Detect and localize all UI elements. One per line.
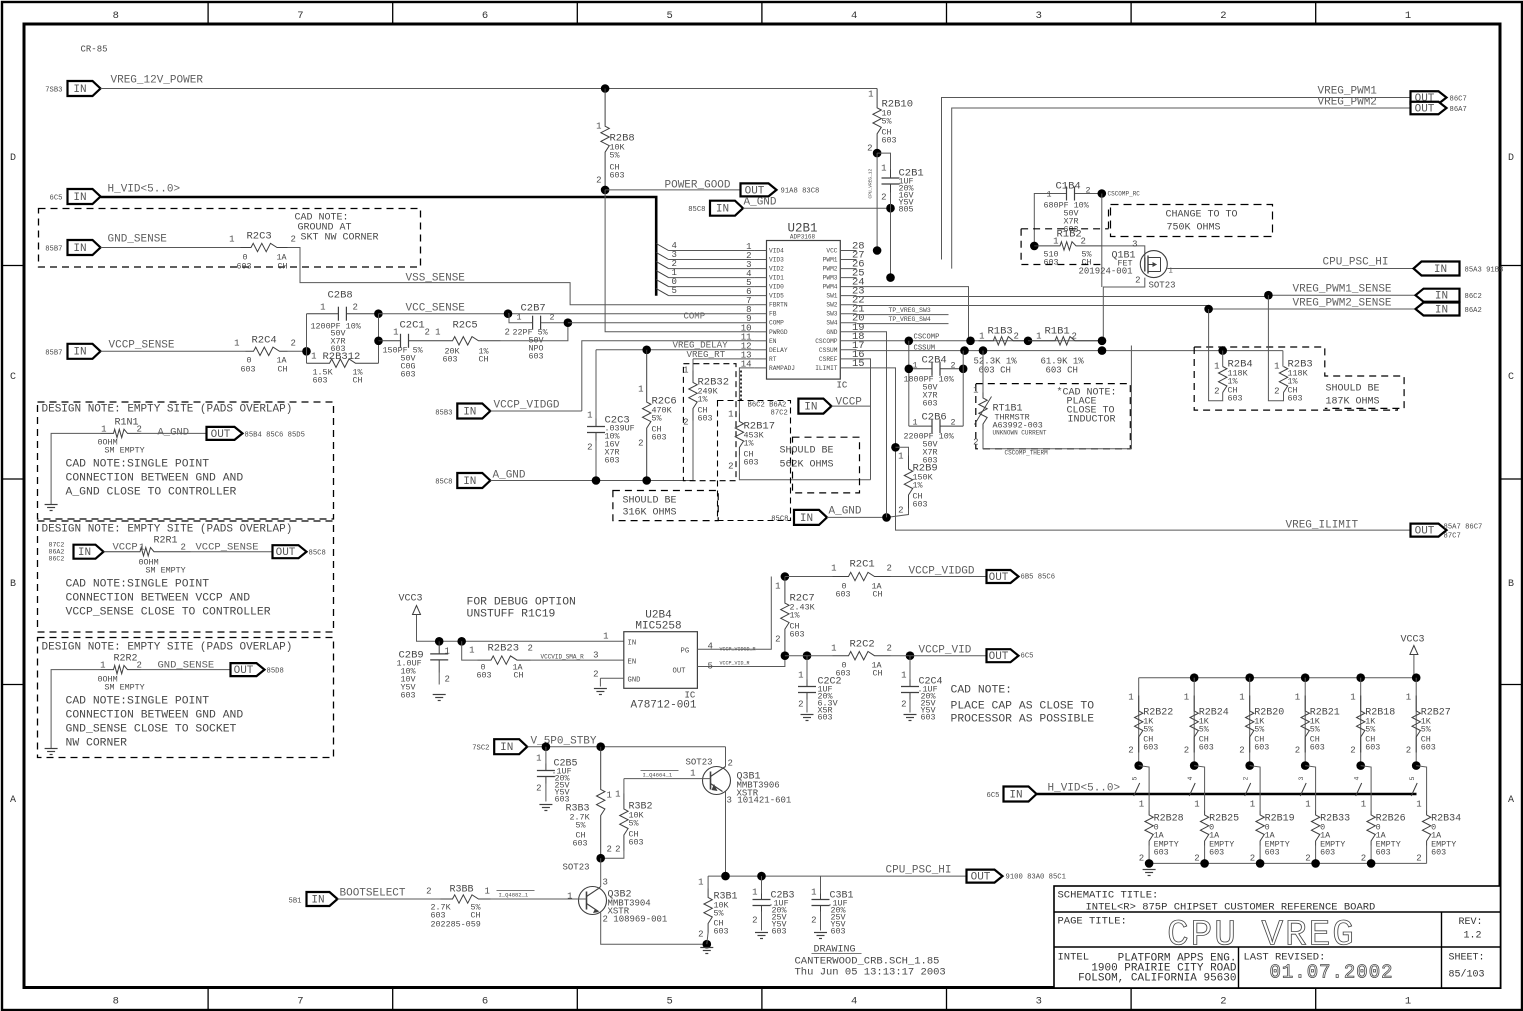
svg-text:2: 2 <box>1416 854 1421 864</box>
port 7SB3 IN <box>45 81 100 96</box>
wire R1B2 to Q1B1 gate <box>1102 246 1145 251</box>
svg-text:4: 4 <box>1354 777 1361 781</box>
svg-text:SHOULD BE: SHOULD BE <box>1326 384 1380 395</box>
dashed box R2B17 <box>718 401 791 521</box>
wire R2B312-R2C5 vertical <box>378 314 380 364</box>
svg-text:1: 1 <box>1036 332 1041 342</box>
svg-text:603: 603 <box>1254 743 1269 753</box>
svg-text:2: 2 <box>951 361 956 371</box>
port OUT VREG_PWM1 <box>1411 91 1467 105</box>
svg-text:5: 5 <box>1132 777 1139 781</box>
svg-text:1: 1 <box>615 790 620 800</box>
svg-text:1: 1 <box>912 361 917 371</box>
svg-text:IN: IN <box>1434 264 1447 276</box>
svg-text:1: 1 <box>898 452 903 462</box>
svg-text:CH: CH <box>278 262 288 272</box>
svg-text:INDUCTOR: INDUCTOR <box>1068 415 1116 426</box>
svg-text:1: 1 <box>311 352 316 362</box>
CAD note dashed box thermistor <box>976 384 1131 449</box>
svg-text:SM EMPTY: SM EMPTY <box>105 683 145 693</box>
wire CSSUM row <box>857 345 1223 353</box>
svg-text:603: 603 <box>698 414 713 424</box>
resistor R3B1 <box>698 876 737 944</box>
svg-text:R3BB: R3BB <box>450 885 474 896</box>
node C2B4 junctions <box>905 365 968 374</box>
port OUT CPU_PSC_HI <box>967 870 1066 884</box>
wire POWER_GOOD <box>605 180 740 192</box>
node R2B9 top junction <box>891 443 900 452</box>
svg-text:CAD NOTE:: CAD NOTE: <box>951 685 1013 697</box>
svg-text:603: 603 <box>882 136 897 146</box>
svg-text:R2C4: R2C4 <box>252 335 277 347</box>
wire COMP row <box>568 312 754 323</box>
svg-text:86C7: 86C7 <box>1450 96 1467 104</box>
svg-text:FOLSOM, CALIFORNIA 95630: FOLSOM, CALIFORNIA 95630 <box>1078 973 1236 985</box>
wire VCCP_SENSE <box>101 350 246 352</box>
svg-text:2: 2 <box>1081 237 1086 247</box>
svg-text:7: 7 <box>297 10 303 22</box>
svg-text:805: 805 <box>899 205 914 215</box>
svg-text:RAMPADJ: RAMPADJ <box>769 365 795 372</box>
svg-text:UNSTUFF R1C19: UNSTUFF R1C19 <box>467 609 556 621</box>
svg-text:Thu Jun 05 13:13:17 2003: Thu Jun 05 13:13:17 2003 <box>795 967 946 979</box>
design note box 2 <box>38 521 334 632</box>
wire PWM4 drop <box>857 287 969 341</box>
svg-text:1: 1 <box>1128 693 1133 703</box>
svg-text:R2C5: R2C5 <box>453 320 478 332</box>
svg-text:603: 603 <box>1376 848 1391 858</box>
svg-text:1: 1 <box>567 892 572 902</box>
port 85B7 IN VCCP_SENSE <box>45 340 175 359</box>
resistor R2B312 <box>307 351 379 386</box>
resistor R1B1 <box>1028 326 1102 376</box>
svg-text:6C5: 6C5 <box>987 792 1000 800</box>
svg-text:2: 2 <box>973 438 978 448</box>
svg-text:85B7: 85B7 <box>45 350 62 358</box>
svg-text:POWER_GOOD: POWER_GOOD <box>665 180 731 192</box>
svg-text:3: 3 <box>593 651 598 661</box>
wire A_GND left row <box>491 480 694 482</box>
svg-text:C: C <box>10 372 16 383</box>
resistor R2B20 <box>1239 678 1284 766</box>
svg-text:603: 603 <box>313 376 328 386</box>
svg-text:CH: CH <box>278 365 288 375</box>
svg-text:PWM2: PWM2 <box>823 266 838 273</box>
svg-text:2: 2 <box>291 235 296 245</box>
resistor R3B3 <box>566 747 612 859</box>
svg-text:6: 6 <box>482 996 488 1008</box>
svg-text:2: 2 <box>550 313 555 323</box>
svg-text:5: 5 <box>666 10 672 22</box>
svg-text:1: 1 <box>831 644 836 654</box>
svg-text:3 101421-601: 3 101421-601 <box>727 796 792 806</box>
svg-text:R2C2: R2C2 <box>850 639 875 651</box>
svg-text:PAGE TITLE:: PAGE TITLE: <box>1058 916 1127 928</box>
capacitor C2C1 <box>379 320 431 380</box>
svg-text:R2C3: R2C3 <box>247 231 272 243</box>
svg-text:EN: EN <box>769 338 777 345</box>
svg-text:4: 4 <box>708 642 713 652</box>
svg-text:C2B6: C2B6 <box>922 412 947 424</box>
svg-text:603: 603 <box>237 262 252 272</box>
svg-text:2: 2 <box>445 675 450 685</box>
node A_GND left junctions <box>592 476 651 485</box>
wire VCCP_VID row left <box>785 655 833 657</box>
svg-text:1: 1 <box>1406 693 1411 703</box>
wire R2C3 to VSS_SENSE <box>288 248 755 305</box>
power VCC3 right <box>1401 635 1425 678</box>
svg-text:CHANGE TO TO: CHANGE TO TO <box>1166 210 1238 221</box>
ground C2B3 <box>755 933 768 939</box>
svg-text:603: 603 <box>921 713 936 723</box>
capacitor C2C3 <box>587 350 635 481</box>
svg-text:2: 2 <box>587 443 592 453</box>
svg-text:SW2: SW2 <box>826 302 837 309</box>
svg-text:CSCOMP_RC: CSCOMP_RC <box>1108 191 1141 198</box>
resistor R2C2 <box>831 639 892 679</box>
node CSCOMP mid junction <box>966 337 975 346</box>
svg-text:VID3: VID3 <box>769 257 784 264</box>
wire C2B1 to PWM3 <box>890 208 892 277</box>
svg-text:A: A <box>10 795 16 806</box>
svg-text:4: 4 <box>1187 777 1194 781</box>
wire C2B4 left column <box>908 341 910 426</box>
svg-text:1: 1 <box>1361 800 1366 810</box>
svg-text:3: 3 <box>1036 996 1042 1008</box>
svg-text:603: 603 <box>1288 394 1303 404</box>
svg-text:EN: EN <box>628 659 637 667</box>
resistor R2C5 <box>431 320 510 365</box>
svg-text:1: 1 <box>690 769 695 779</box>
CAD note dashed box (GND at SKT NW corner) <box>39 209 421 268</box>
svg-text:1: 1 <box>868 90 873 100</box>
svg-text:603: 603 <box>1431 848 1446 858</box>
svg-text:VREG_PWM2_SENSE: VREG_PWM2_SENSE <box>1293 298 1392 310</box>
svg-text:B6C2 B6A2: B6C2 B6A2 <box>748 402 787 410</box>
unstuffed component marker <box>740 371 742 402</box>
svg-text:FBRTN: FBRTN <box>769 302 788 309</box>
svg-text:85B4 85C6 85D5: 85B4 85C6 85D5 <box>245 432 305 440</box>
bus taps VID4..VID5 to U2B1 <box>656 241 754 296</box>
svg-text:603: 603 <box>241 365 256 375</box>
svg-text:1: 1 <box>469 646 474 656</box>
resistor R2B17 <box>728 410 870 480</box>
resistor R2B25 <box>1194 766 1239 864</box>
svg-text:ADP3168: ADP3168 <box>790 234 816 241</box>
svg-text:1: 1 <box>1350 693 1355 703</box>
svg-text:CPU VREG: CPU VREG <box>1167 915 1356 956</box>
svg-text:2: 2 <box>901 700 906 710</box>
svg-text:IN: IN <box>716 204 729 216</box>
thermistor RT1B1 <box>973 351 1047 448</box>
wire VREG_12V_POWER <box>101 75 878 89</box>
svg-text:5%: 5% <box>652 414 663 424</box>
svg-text:2: 2 <box>291 339 296 349</box>
node R3B3 bottom junction <box>596 854 605 863</box>
ground VID network <box>1143 870 1156 876</box>
svg-text:INTEL: INTEL <box>1058 952 1090 964</box>
resistor R2B8 <box>596 89 635 190</box>
wire CPU_PSC_HI right <box>1167 257 1413 269</box>
svg-text:CSREF: CSREF <box>819 356 838 363</box>
svg-text:2: 2 <box>615 845 620 855</box>
wire GND_SENSE <box>101 247 241 249</box>
svg-text:C: C <box>1508 372 1514 383</box>
capacitor C2B5 <box>536 747 577 805</box>
wire CSCOMP_THERM <box>983 346 1131 457</box>
resistor R2C4 <box>234 335 296 375</box>
svg-text:1: 1 <box>752 888 757 898</box>
svg-text:CH: CH <box>873 590 883 600</box>
resistor R2B18 <box>1350 678 1395 766</box>
svg-text:DELAY: DELAY <box>769 347 788 354</box>
svg-text:2: 2 <box>1220 10 1226 22</box>
node PWM1_SENSE junction <box>1264 291 1273 300</box>
svg-text:2: 2 <box>811 916 816 926</box>
svg-text:5: 5 <box>666 996 672 1008</box>
svg-text:VREG_ILIMIT: VREG_ILIMIT <box>1286 520 1359 532</box>
wire R2C5 to COMP <box>501 323 568 341</box>
node VID divider junctions <box>1134 761 1420 770</box>
port 5B1 IN BOOTSELECT <box>289 888 406 907</box>
svg-text:PROCESSOR AS POSSIBLE: PROCESSOR AS POSSIBLE <box>951 714 1095 726</box>
svg-text:C2B8: C2B8 <box>328 290 353 302</box>
svg-text:1: 1 <box>603 632 608 642</box>
svg-text:R1N1: R1N1 <box>115 418 139 429</box>
svg-text:2: 2 <box>1184 746 1189 756</box>
svg-text:D: D <box>10 153 16 164</box>
svg-text:6: 6 <box>482 10 488 22</box>
node DELAY junction <box>642 346 651 355</box>
capacitor C2B6 <box>904 412 964 466</box>
svg-text:7SC2: 7SC2 <box>472 745 489 753</box>
wire ground rail <box>1149 862 1427 864</box>
svg-text:87C2: 87C2 <box>49 542 65 549</box>
dashed box R2B4 R2B3 <box>1194 347 1404 410</box>
dashed box R2B32 <box>683 364 736 481</box>
wire VREG_PWM1_SENSE <box>857 284 1416 297</box>
svg-text:1: 1 <box>516 313 521 323</box>
svg-text:VCCP_VID: VCCP_VID <box>919 645 972 657</box>
node R1B2 left junction <box>1030 242 1039 251</box>
svg-text:A_GND: A_GND <box>829 506 862 518</box>
svg-text:CSCOMP: CSCOMP <box>914 334 940 342</box>
svg-text:603: 603 <box>529 352 544 362</box>
wire Q1B1 source drop <box>1103 278 1145 341</box>
note debug option <box>467 597 576 621</box>
svg-text:ILIMIT: ILIMIT <box>815 365 838 372</box>
wire VREG_PWM2_SENSE <box>857 298 1416 310</box>
port OUT GND_SENSE dn3 <box>231 663 284 677</box>
svg-text:5B1: 5B1 <box>289 898 302 906</box>
svg-text:1: 1 <box>901 671 906 681</box>
wire CSCOMP_RC down <box>1101 246 1103 287</box>
svg-text:2: 2 <box>607 845 612 855</box>
svg-text:3: 3 <box>1298 777 1305 781</box>
svg-text:1: 1 <box>798 671 803 681</box>
ground C2C2 <box>801 715 814 721</box>
svg-text:IN: IN <box>1009 789 1022 801</box>
svg-text:2: 2 <box>1014 332 1019 342</box>
wire SW4 testpoint <box>857 316 949 324</box>
resistor R2B34 <box>1416 766 1461 864</box>
resistor R2B21 <box>1295 678 1340 766</box>
power VCC3 left <box>399 594 624 642</box>
svg-text:8: 8 <box>113 10 119 22</box>
svg-text:603: 603 <box>714 927 729 937</box>
svg-text:1: 1 <box>607 791 612 801</box>
svg-text:86C2: 86C2 <box>49 556 65 563</box>
svg-text:2: 2 <box>798 700 803 710</box>
svg-text:VID5: VID5 <box>769 293 784 300</box>
note text dn1 <box>66 459 244 499</box>
resistor R2R2 <box>98 654 231 693</box>
svg-text:603: 603 <box>772 927 787 937</box>
svg-text:R2B23: R2B23 <box>488 643 520 655</box>
svg-text:4: 4 <box>851 996 857 1008</box>
svg-text:R1B2: R1B2 <box>1057 229 1082 241</box>
svg-text:I_Q4664_1: I_Q4664_1 <box>643 772 673 779</box>
resistor R2B24 <box>1184 678 1229 766</box>
node junction R2B8 top <box>601 84 610 93</box>
svg-text:750K OHMS: 750K OHMS <box>1167 223 1221 234</box>
svg-text:B: B <box>10 579 16 590</box>
svg-text:603: 603 <box>605 456 620 466</box>
transistor Q3B1 PNP <box>686 758 792 877</box>
svg-text:VCCP_SENSE CLOSE TO CONTROLLER: VCCP_SENSE CLOSE TO CONTROLLER <box>66 607 271 619</box>
svg-text:OUT: OUT <box>745 185 765 197</box>
svg-text:85C8: 85C8 <box>309 550 326 558</box>
port IN VREG_PWM2_SENSE <box>1416 303 1482 317</box>
svg-text:2: 2 <box>181 543 186 553</box>
wire R2B10 to C2B1 <box>877 153 890 169</box>
svg-text:2: 2 <box>1072 332 1077 342</box>
svg-text:2: 2 <box>881 193 886 203</box>
svg-text:OUT: OUT <box>989 651 1009 663</box>
svg-text:SW1: SW1 <box>826 293 837 300</box>
svg-text:R2C1: R2C1 <box>850 559 875 571</box>
svg-text:1: 1 <box>1194 800 1199 810</box>
svg-text:85A7 86C7: 85A7 86C7 <box>1444 524 1483 532</box>
svg-text:IN: IN <box>73 192 86 204</box>
svg-text:PWM3: PWM3 <box>823 275 838 282</box>
svg-text:GND_SENSE: GND_SENSE <box>108 234 168 246</box>
svg-text:01.07.2002: 01.07.2002 <box>1269 962 1393 984</box>
svg-text:GND: GND <box>628 677 641 685</box>
svg-text:1: 1 <box>973 386 978 396</box>
svg-text:TP_VREG_SW4: TP_VREG_SW4 <box>889 316 931 323</box>
port 6C5 IN H_VID <box>50 189 101 204</box>
svg-text:VCCP_VIDGD: VCCP_VIDGD <box>909 566 975 578</box>
wire R2C4 to node <box>288 350 307 352</box>
svg-text:603: 603 <box>1421 743 1436 753</box>
svg-text:VCCVID_SMA_R: VCCVID_SMA_R <box>541 654 585 661</box>
wire RT row <box>687 349 755 360</box>
node VCCP_VID junctions <box>781 651 915 660</box>
svg-text:2: 2 <box>698 930 703 940</box>
net label B6C2 B6A2 87C2 <box>748 402 788 418</box>
svg-text:603: 603 <box>1265 848 1280 858</box>
node CSCOMP_RC junction <box>1098 189 1141 198</box>
svg-text:2: 2 <box>1274 387 1279 397</box>
svg-text:CSSUM: CSSUM <box>819 347 838 354</box>
title block <box>1054 886 1501 988</box>
svg-text:6C5: 6C5 <box>1021 653 1034 661</box>
resistor R1N1 <box>98 418 207 456</box>
svg-text:H_VID<5..0>: H_VID<5..0> <box>108 184 181 196</box>
svg-text:603: 603 <box>913 500 928 510</box>
svg-text:GND_SENSE CLOSE TO SOCKET: GND_SENSE CLOSE TO SOCKET <box>66 724 237 736</box>
resistor R2B19 <box>1250 766 1295 864</box>
node CSCOMP right junction <box>1098 337 1107 346</box>
svg-text:2: 2 <box>1194 854 1199 864</box>
resistor R2C7 <box>775 577 816 656</box>
svg-text:A_GND: A_GND <box>744 197 777 209</box>
node VCC_SENSE/C2B7 junction <box>504 309 513 318</box>
svg-text:2: 2 <box>593 670 598 680</box>
svg-text:86A7: 86A7 <box>1450 106 1467 114</box>
regulator U2B4 MIC5258 <box>593 610 713 712</box>
resistor R2B10 <box>867 89 913 154</box>
ground Q3B2 emitter <box>700 948 713 954</box>
svg-text:R1B1: R1B1 <box>1045 326 1070 338</box>
port 8SB7 IN GND_SENSE <box>45 234 167 256</box>
wire CSCOMP row <box>857 334 1103 342</box>
svg-text:1: 1 <box>596 122 601 132</box>
svg-text:R2B312: R2B312 <box>323 351 361 363</box>
resistor R2B28 <box>1139 766 1184 864</box>
wire VCCP route <box>832 359 871 480</box>
wire FB row (VCC_SENSE) <box>378 303 754 315</box>
svg-text:CH: CH <box>479 355 489 365</box>
svg-text:4: 4 <box>851 10 857 22</box>
svg-text:603: 603 <box>831 927 846 937</box>
wire ILIMIT route <box>857 368 1411 532</box>
svg-text:2: 2 <box>1243 777 1250 781</box>
resistor R2B26 <box>1361 766 1406 864</box>
svg-text:SKT NW CORNER: SKT NW CORNER <box>301 233 379 244</box>
svg-text:3: 3 <box>1132 240 1137 250</box>
svg-text:1: 1 <box>775 582 780 592</box>
svg-text:316K OHMS: 316K OHMS <box>623 508 677 519</box>
wire R1N1 to gnd <box>51 433 100 504</box>
svg-text:OUT: OUT <box>971 872 991 884</box>
svg-text:85B3: 85B3 <box>435 410 452 418</box>
capacitor C2B3 <box>752 876 794 936</box>
svg-text:7SB3: 7SB3 <box>45 87 62 95</box>
svg-text:CSCOMP_THERM: CSCOMP_THERM <box>1005 450 1049 457</box>
svg-text:IN: IN <box>800 513 813 525</box>
svg-text:85D8: 85D8 <box>267 668 284 676</box>
svg-text:1: 1 <box>435 328 440 338</box>
resistor R2B32 <box>683 359 729 481</box>
svg-text:OUT: OUT <box>673 668 687 676</box>
node A_GND/C2B1 junction <box>886 204 895 213</box>
svg-text:PWM1: PWM1 <box>823 257 838 264</box>
svg-text:COMP: COMP <box>684 312 706 322</box>
port 6C5 IN H_VID bottom <box>987 783 1121 802</box>
svg-text:85/103: 85/103 <box>1449 969 1485 981</box>
svg-text:2: 2 <box>867 144 872 154</box>
svg-text:CPU_PSC_HI: CPU_PSC_HI <box>886 865 952 877</box>
svg-text:1: 1 <box>587 411 592 421</box>
svg-text:85A3 91B8: 85A3 91B8 <box>1465 267 1504 275</box>
svg-text:OUT: OUT <box>1415 103 1435 115</box>
resistor R2R1 <box>104 536 273 576</box>
sheet label CR-85 <box>81 45 108 55</box>
svg-text:3: 3 <box>603 878 608 888</box>
svg-text:86C2: 86C2 <box>1465 293 1482 301</box>
